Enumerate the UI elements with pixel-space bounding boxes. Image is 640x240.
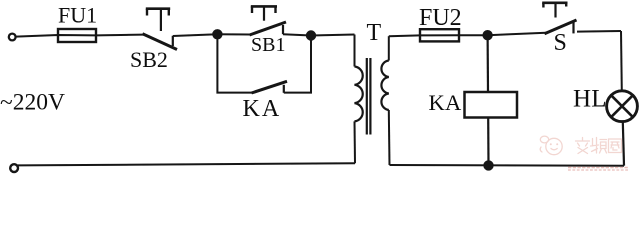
svg-text:FU1: FU1 — [58, 3, 97, 28]
svg-text:HL: HL — [573, 86, 607, 113]
svg-text:FU2: FU2 — [419, 5, 462, 31]
svg-text:T: T — [367, 20, 382, 46]
svg-text:~220V: ~220V — [0, 90, 65, 116]
svg-text:SB1: SB1 — [251, 34, 285, 56]
svg-text:SB2: SB2 — [130, 47, 168, 72]
svg-text:S: S — [554, 30, 567, 56]
svg-text:KA: KA — [243, 96, 282, 122]
svg-text:KA: KA — [429, 90, 463, 115]
